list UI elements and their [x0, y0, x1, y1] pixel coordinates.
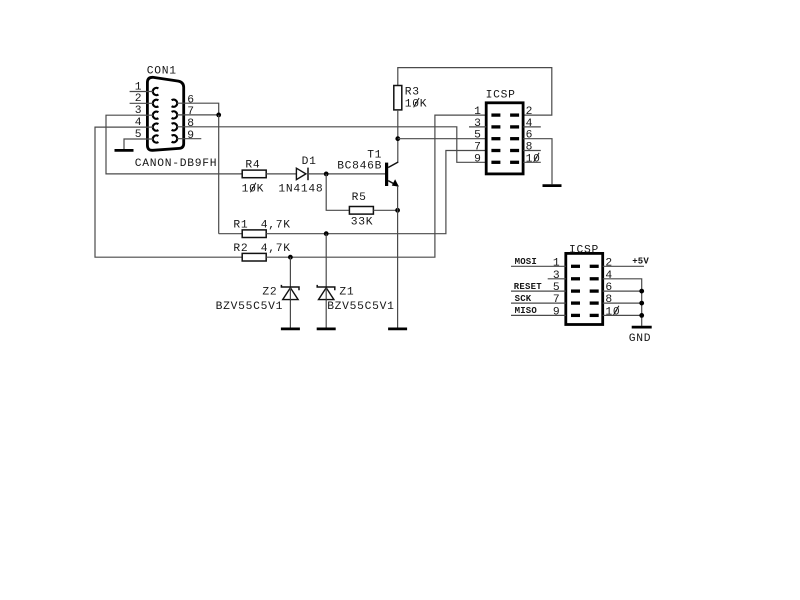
CON1 pin 5 socket arc [153, 135, 159, 142]
ICSP1 pin 6 contact [510, 137, 519, 140]
wire ICSP1 pin10 stub [523, 161, 541, 163]
junction pin8-gnd rail [639, 301, 644, 306]
svg-text:RESET: RESET [514, 282, 542, 292]
svg-text:1: 1 [553, 257, 561, 269]
svg-text:MOSI: MOSI [515, 257, 537, 267]
junction collector node [395, 136, 400, 141]
wire +V top rail [398, 68, 552, 116]
junction pin10-gnd rail [639, 313, 644, 318]
ICSP1 pin 9 contact [491, 161, 500, 164]
slashed zero R3 [414, 98, 420, 107]
svg-text:7: 7 [187, 106, 195, 118]
junction CON1 pins 6-7 [216, 113, 221, 118]
svg-text:5: 5 [474, 130, 482, 142]
svg-text:R5: R5 [352, 192, 367, 204]
connector ICSP1 body [486, 103, 523, 174]
wire ICSP2 pin6 [603, 290, 642, 292]
svg-text:6: 6 [605, 282, 613, 294]
junction emitter-R5 [395, 208, 400, 213]
svg-text:7: 7 [474, 142, 482, 154]
svg-text:9: 9 [187, 130, 195, 142]
ICSP2 pin 4 contact [590, 277, 599, 280]
ground at CON1 pin5 [115, 149, 134, 152]
ICSP2 pin 8 contact [590, 301, 599, 304]
wire RESET to pin5 [511, 290, 566, 292]
CON1 pin 3 socket arc [153, 112, 159, 119]
wire CON1 pin1 stub [130, 91, 153, 93]
svg-text:R1: R1 [233, 219, 248, 231]
wire to R1 left [219, 233, 243, 235]
svg-text:GND: GND [629, 333, 652, 345]
wire emitter down [397, 186, 399, 211]
svg-text:R2: R2 [233, 243, 248, 255]
wire R4 to D1 [266, 173, 296, 175]
svg-text:10: 10 [605, 306, 620, 318]
svg-text:7: 7 [553, 294, 561, 306]
ICSP1 pin 10 contact [510, 161, 519, 164]
wire ICSP1 pin6 to ground [523, 139, 552, 185]
svg-text:1N4148: 1N4148 [278, 183, 323, 195]
CON1 pin 6 socket arc [172, 100, 178, 107]
svg-text:BC846B: BC846B [337, 161, 382, 173]
svg-text:Z1: Z1 [339, 286, 354, 298]
svg-text:BZV55C5V1: BZV55C5V1 [216, 301, 284, 313]
svg-text:6: 6 [187, 95, 195, 107]
junction D1-R5 node [324, 172, 329, 177]
wire ICSP2 pin10 [603, 314, 642, 316]
svg-text:Z2: Z2 [262, 286, 277, 298]
junction R1-Z1 [324, 231, 329, 236]
transistor T1 BC846B [385, 163, 388, 186]
svg-text:5: 5 [553, 282, 561, 294]
ICSP2 pin 7 contact [571, 301, 580, 304]
resistor R1 [242, 230, 266, 238]
zener diode Z2 [289, 257, 291, 327]
wire CON1 pin6 down to pin7 node [177, 103, 219, 115]
ICSP2 pin 9 contact [571, 314, 580, 317]
wire CON1 pin7 [177, 114, 219, 116]
diode D1 1N4148 [296, 168, 306, 179]
wire R5 to emitter node [373, 209, 397, 211]
wire CON1 pin8 to ICSP pin9 [177, 127, 486, 163]
wire CON1 pin3 to R4 [106, 115, 242, 174]
resistor R2 [242, 253, 266, 261]
ICSP1 pin 8 contact [510, 149, 519, 152]
ICSP2 pin 2 contact [590, 265, 599, 268]
svg-text:D1: D1 [302, 156, 317, 168]
CON1 pin 1 socket arc [153, 88, 159, 95]
svg-text:8: 8 [526, 142, 534, 154]
wire CON1 pin2 stub [130, 102, 153, 104]
junction R2-Z2 [288, 255, 293, 260]
resistor R3 [394, 86, 402, 110]
svg-text:3: 3 [474, 118, 482, 130]
svg-text:4: 4 [605, 270, 613, 282]
wire ICSP1 pin8 stub [523, 150, 541, 152]
svg-text:ICSP: ICSP [486, 89, 516, 101]
wire emitter node to ground [397, 210, 399, 327]
wire ICSP2 pin8 [603, 302, 642, 304]
svg-text:2: 2 [526, 106, 534, 118]
wire R1 to ICSP pin7 [266, 151, 486, 234]
svg-text:R4: R4 [245, 159, 260, 171]
wire R3 to collector [397, 110, 399, 162]
svg-text:4,7K: 4,7K [261, 219, 291, 231]
ground at ICSP1 pin6 [543, 184, 562, 187]
svg-text:SCK: SCK [515, 294, 532, 304]
svg-text:3: 3 [553, 270, 561, 282]
wire CON1 pin5 to ground [124, 139, 153, 149]
ICSP2 pin 1 contact [571, 265, 580, 268]
wire ICSP2 pin4 to ground rail [603, 279, 642, 326]
zener diode Z1 [325, 234, 327, 328]
wire pin2 to +5V [603, 265, 644, 267]
svg-text:CON1: CON1 [147, 66, 177, 78]
CON1 pin 4 socket arc [153, 124, 159, 131]
wire MOSI to pin1 [511, 265, 566, 267]
CON1 pin 8 socket arc [172, 123, 178, 130]
svg-text:1: 1 [474, 106, 482, 118]
ICSP2 pin 3 contact [571, 277, 580, 280]
wire CON1 pin9 stub [177, 138, 201, 140]
wire ICSP1 pin3 stub [469, 126, 486, 128]
ICSP1 pin 3 contact [491, 125, 500, 128]
connector ICSP2 body [566, 253, 603, 324]
resistor R5 [349, 207, 373, 215]
ground at ICSP2 [632, 326, 652, 329]
svg-text:CANON-DB9FH: CANON-DB9FH [135, 158, 218, 170]
svg-text:10K: 10K [405, 99, 428, 111]
connector CON1 CANON-DB9FH [147, 77, 183, 150]
svg-text:9: 9 [474, 153, 482, 165]
svg-text:6: 6 [526, 130, 534, 142]
ground at Z1 [317, 328, 336, 331]
slashed zero R4 [250, 183, 256, 192]
svg-text:4,7K: 4,7K [261, 243, 291, 255]
wire SCK to pin7 [511, 302, 566, 304]
junction pin6-gnd rail [639, 289, 644, 294]
svg-text:2: 2 [605, 257, 613, 269]
wire node to R5 [326, 174, 349, 210]
ICSP1 pin 7 contact [491, 149, 500, 152]
svg-text:33K: 33K [351, 216, 374, 228]
slashed zero pin10 top [534, 153, 540, 162]
wire CON1 pin4 to R2 [95, 127, 242, 257]
wire D1 to T1 base [308, 173, 385, 175]
svg-text:8: 8 [605, 294, 613, 306]
wire ICSP2 pin3 stub [548, 278, 566, 280]
slashed zero pin10 bottom [613, 306, 619, 315]
ground at Z2 [281, 328, 300, 331]
wire ICSP1 pin4 stub [523, 126, 541, 128]
ground at emitter [388, 328, 407, 331]
CON1 pin 9 socket arc [172, 135, 178, 142]
ICSP1 pin 1 contact [491, 113, 500, 116]
svg-text:ICSP: ICSP [569, 244, 599, 256]
wire R2 to ICSP pin1 [266, 115, 486, 257]
wire node to ICSP pin5 [398, 138, 486, 140]
ICSP1 pin 4 contact [510, 125, 519, 128]
svg-text:T1: T1 [367, 149, 382, 161]
svg-text:8: 8 [187, 118, 195, 130]
resistor R4 [242, 170, 266, 178]
svg-text:R3: R3 [405, 86, 420, 98]
ICSP2 pin 5 contact [571, 289, 580, 292]
svg-text:10: 10 [526, 153, 541, 165]
svg-text:BZV55C5V1: BZV55C5V1 [327, 301, 395, 313]
ICSP1 pin 5 contact [491, 137, 500, 140]
ICSP2 pin 6 contact [590, 289, 599, 292]
wire node to R1 [218, 115, 220, 234]
CON1 pin 7 socket arc [172, 111, 178, 118]
T1 emitter arrow [392, 179, 399, 186]
svg-text:+5V: +5V [632, 256, 649, 266]
ICSP1 pin 2 contact [510, 113, 519, 116]
CON1 pin 2 socket arc [153, 100, 159, 107]
svg-text:9: 9 [553, 306, 561, 318]
svg-text:4: 4 [526, 118, 534, 130]
wire MISO to pin9 [511, 314, 566, 316]
ICSP2 pin 10 contact [590, 314, 599, 317]
svg-text:10K: 10K [242, 183, 265, 195]
svg-text:MISO: MISO [515, 306, 538, 316]
